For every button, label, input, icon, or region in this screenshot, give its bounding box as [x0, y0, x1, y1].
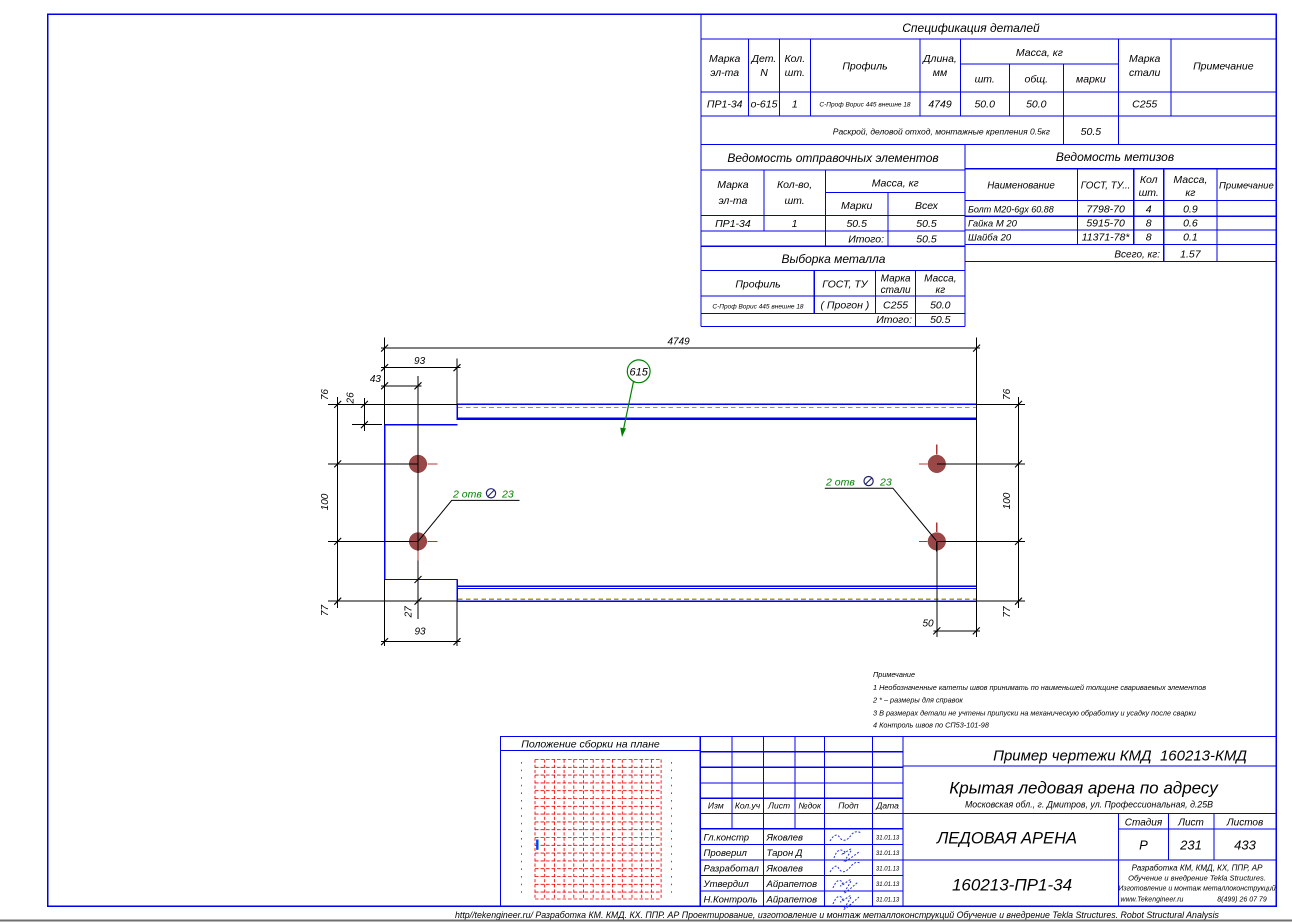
- svg-text:1 Необозначенные катеты швов: 1 Необозначенные катеты швов принимать п…: [873, 683, 1206, 692]
- dimension extension lines (black): [328, 338, 1025, 647]
- svg-text:Московская обл., г. Дмитров, у: Московская обл., г. Дмитров, ул. Професс…: [965, 800, 1213, 810]
- svg-text:ПР1-34: ПР1-34: [707, 99, 743, 111]
- leader label left "2 отв ⌀23": [418, 489, 520, 542]
- bottom grey separator line: [0, 920, 1292, 922]
- hole bottom-left: [409, 533, 427, 551]
- svg-text:эл-та: эл-та: [710, 67, 739, 79]
- svg-text:С255: С255: [883, 300, 908, 312]
- svg-text:ГОСТ, ТУ: ГОСТ, ТУ: [822, 279, 868, 291]
- svg-text:Шайба 20: Шайба 20: [968, 233, 1012, 244]
- svg-text:Листов: Листов: [1226, 818, 1263, 829]
- svg-text:Дет.: Дет.: [751, 53, 777, 65]
- stamp header texts: [708, 801, 899, 811]
- svg-text:8(499) 26 07 79: 8(499) 26 07 79: [1217, 897, 1267, 904]
- svg-text:4 Контроль швов по СП53-101-9: 4 Контроль швов по СП53-101-98: [873, 721, 990, 730]
- svg-text:Марка: Марка: [1129, 53, 1161, 65]
- svg-text:Примечание: Примечание: [873, 670, 915, 679]
- svg-text:Р: Р: [1139, 838, 1148, 853]
- svg-text:77: 77: [320, 605, 331, 617]
- hidden lip lines (olive dashed): [458, 408, 976, 600]
- svg-text:Проверил: Проверил: [704, 848, 748, 859]
- ved metizov table "Ведомость метизов" lines: [965, 145, 1276, 262]
- hole crosshair black overlays: [409, 454, 946, 552]
- detail balloon 615: [620, 360, 650, 437]
- svg-text:0.9: 0.9: [1183, 204, 1198, 216]
- svg-text:Обучение и внедрение Tekla St: Обучение и внедрение Tekla Structures.: [1128, 874, 1266, 883]
- svg-text:0.6: 0.6: [1183, 218, 1198, 230]
- svg-text:Раскрой, деловой отход, монтаж: Раскрой, деловой отход, монтажные крепле…: [833, 127, 1050, 137]
- svg-text:50.5: 50.5: [846, 218, 867, 230]
- svg-text:76: 76: [320, 389, 331, 401]
- svg-text:Изм: Изм: [708, 801, 724, 811]
- svg-text:Итого:: Итого:: [876, 314, 912, 326]
- stamp table lines: [500, 737, 1276, 906]
- svg-text:шт.: шт.: [784, 195, 804, 207]
- svg-text:( Прогон ): ( Прогон ): [821, 300, 870, 312]
- hole top-left: [409, 455, 427, 473]
- svg-text:мм: мм: [933, 67, 947, 79]
- svg-text:50: 50: [922, 619, 934, 630]
- svg-text:шт.: шт.: [1139, 187, 1159, 199]
- svg-text:1: 1: [792, 218, 798, 230]
- svg-text:Марки: Марки: [841, 200, 873, 212]
- notes "Примечание": [872, 670, 1206, 730]
- svg-text:Кол.уч: Кол.уч: [735, 801, 761, 811]
- svg-text:50.0: 50.0: [930, 300, 951, 312]
- svg-text:Яковлев: Яковлев: [766, 864, 804, 875]
- svg-text:8: 8: [1146, 232, 1152, 244]
- svg-text:50.0: 50.0: [1026, 99, 1047, 111]
- svg-text:Ведомость отправочных элементо: Ведомость отправочных элементов: [727, 151, 938, 165]
- svg-text:433: 433: [1234, 838, 1256, 853]
- svg-text:93: 93: [414, 626, 426, 637]
- svg-text:www.Tekengineer.ru: www.Tekengineer.ru: [1121, 897, 1184, 904]
- svg-text:стали: стали: [881, 285, 911, 296]
- svg-text:615: 615: [630, 367, 649, 379]
- svg-text:1.57: 1.57: [1180, 249, 1202, 261]
- svg-text:4749: 4749: [667, 337, 690, 348]
- svg-text:50.5: 50.5: [916, 234, 937, 246]
- svg-text:2 * – размеры для справок: 2 * – размеры для справок: [872, 696, 963, 705]
- svg-text:Длина,: Длина,: [922, 53, 957, 65]
- svg-text:Крытая ледовая арена по адресу: Крытая ледовая арена по адресу: [949, 779, 1219, 798]
- stamp dates: [876, 836, 900, 904]
- bottom flange inner double line: [457, 585, 976, 587]
- svg-text:93: 93: [414, 356, 426, 367]
- svg-text:0.1: 0.1: [1183, 232, 1198, 244]
- svg-text:Н.Контроль: Н.Контроль: [704, 894, 758, 905]
- svg-text:50.5: 50.5: [1081, 126, 1102, 138]
- left step bottom edge: [385, 579, 458, 581]
- svg-text:кг: кг: [935, 285, 945, 296]
- ved metizov texts: [968, 150, 1274, 261]
- assembly plan red grid: [522, 760, 672, 900]
- stamp name rows: [703, 833, 818, 906]
- svg-text:7798-70: 7798-70: [1086, 204, 1125, 216]
- svg-text:ПР1-34: ПР1-34: [715, 218, 751, 230]
- svg-text:Примечание: Примечание: [1219, 181, 1274, 192]
- svg-text:26: 26: [345, 392, 356, 405]
- svg-text:С-Проф Ворис 445 внешне 18: С-Проф Ворис 445 внешне 18: [712, 304, 804, 311]
- svg-text:100: 100: [1002, 492, 1013, 509]
- svg-text:76: 76: [1002, 388, 1013, 400]
- left notch vertical top: [456, 404, 458, 419]
- svg-text:2 отв: 2 отв: [825, 476, 855, 488]
- svg-text:Подп: Подп: [838, 801, 859, 811]
- svg-text:Дата: Дата: [875, 801, 899, 811]
- dimension lines (black): [338, 348, 1019, 641]
- svg-text:5915-70: 5915-70: [1086, 218, 1125, 230]
- spec table texts: [707, 21, 1254, 138]
- svg-text:Спецификация деталей: Спецификация деталей: [902, 21, 1040, 35]
- svg-text:31.01.13: 31.01.13: [876, 867, 900, 873]
- vyborka metalla table "Выборка металла" lines: [701, 271, 965, 327]
- svg-text:Профиль: Профиль: [842, 61, 887, 73]
- assembly plan blue position mark: [536, 840, 538, 850]
- svg-text:Итого:: Итого:: [848, 234, 884, 246]
- svg-text:Айрапетов: Айрапетов: [766, 894, 818, 905]
- bottom edge: [457, 600, 976, 602]
- svg-text:Болт М20-6gх 60.88: Болт М20-6gх 60.88: [968, 205, 1054, 215]
- svg-text:Всех: Всех: [915, 200, 939, 212]
- svg-text:Примечание: Примечание: [1193, 61, 1254, 73]
- svg-text:Выборка металла: Выборка металла: [782, 252, 886, 266]
- svg-text:Изготовление и монтаж металлок: Изготовление и монтаж металлоконструкций: [1118, 885, 1275, 893]
- svg-text:№док: №док: [798, 801, 822, 811]
- svg-text:Ведомость метизов: Ведомость метизов: [1056, 150, 1174, 164]
- left end edge: [384, 425, 386, 580]
- svg-text:Айрапетов: Айрапетов: [766, 879, 818, 890]
- svg-text:шт.: шт.: [785, 67, 805, 79]
- spec table "Спецификация деталей" lines: [701, 14, 1276, 326]
- svg-text:Гайка М 20: Гайка М 20: [968, 219, 1018, 230]
- svg-text:Всего, кг:: Всего, кг:: [1114, 250, 1160, 261]
- svg-text:ЛЕДОВАЯ АРЕНА: ЛЕДОВАЯ АРЕНА: [936, 830, 1077, 848]
- leader label right "2 отв ⌀23": [825, 476, 936, 540]
- svg-text:Кол.: Кол.: [784, 53, 805, 65]
- svg-text:Профиль: Профиль: [735, 279, 780, 291]
- svg-text:23: 23: [879, 476, 892, 488]
- svg-text:Масса, кг: Масса, кг: [872, 178, 919, 190]
- svg-text:Стадия: Стадия: [1125, 818, 1163, 829]
- hole top-right: [928, 455, 946, 473]
- svg-text:С-Проф Ворис 445 внешне 18: С-Проф Ворис 445 внешне 18: [819, 102, 911, 109]
- svg-text:Кол-во,: Кол-во,: [777, 179, 812, 191]
- svg-text:Масса, кг: Масса, кг: [1016, 47, 1063, 59]
- svg-text:160213-ПР1-34: 160213-ПР1-34: [952, 876, 1072, 895]
- svg-text:Разработка КМ, КМД, КХ, ППР, А: Разработка КМ, КМД, КХ, ППР, АР: [1132, 864, 1264, 873]
- svg-text:77: 77: [1002, 606, 1013, 618]
- svg-text:С255: С255: [1132, 99, 1157, 111]
- svg-text:50.5: 50.5: [930, 314, 951, 326]
- svg-text:стали: стали: [1129, 67, 1161, 79]
- svg-text:общ.: общ.: [1024, 74, 1048, 86]
- svg-text:31.01.13: 31.01.13: [876, 851, 900, 857]
- svg-text:Марка: Марка: [717, 179, 749, 191]
- svg-text:Яковлев: Яковлев: [766, 833, 804, 844]
- svg-text:Положение сборки на плане: Положение сборки на плане: [521, 739, 660, 751]
- svg-text:ГОСТ, ТУ...: ГОСТ, ТУ...: [1081, 181, 1131, 192]
- svg-text:эл-та: эл-та: [718, 195, 747, 207]
- svg-text:Гл.констр: Гл.констр: [704, 833, 750, 844]
- purlin profile outline (blue): [385, 404, 976, 601]
- svg-text:31.01.13: 31.01.13: [876, 836, 900, 842]
- svg-text:кг: кг: [1185, 187, 1195, 199]
- svg-text:Кол: Кол: [1140, 174, 1158, 186]
- svg-text:о-615: о-615: [751, 99, 778, 111]
- svg-text:8: 8: [1146, 218, 1152, 230]
- svg-text:23: 23: [501, 489, 514, 501]
- svg-text:2 отв: 2 отв: [452, 489, 482, 501]
- svg-text:4: 4: [1146, 204, 1152, 216]
- svg-text:1: 1: [792, 99, 798, 111]
- top edge: [457, 403, 976, 405]
- title block right section lines: [903, 766, 1276, 906]
- left step top edge: [385, 424, 458, 426]
- svg-text:марки: марки: [1076, 74, 1106, 86]
- svg-text:50.0: 50.0: [974, 99, 995, 111]
- svg-text:3 В размерах детали не учтены: 3 В размерах детали не учтены припуски н…: [873, 709, 1196, 718]
- top flange inner (thick): [457, 417, 976, 420]
- svg-text:100: 100: [320, 493, 331, 510]
- title block right section texts: [936, 748, 1276, 904]
- svg-text:Разработал: Разработал: [704, 864, 760, 875]
- svg-text:231: 231: [1179, 838, 1202, 853]
- svg-text:N: N: [760, 67, 768, 79]
- hole bottom-right: [928, 533, 946, 551]
- svg-text:Тарон Д: Тарон Д: [767, 848, 803, 859]
- svg-text:27: 27: [403, 606, 414, 619]
- svg-text:Масса,: Масса,: [924, 274, 956, 285]
- svg-text:Наименование: Наименование: [987, 181, 1055, 192]
- svg-text:50.5: 50.5: [916, 218, 937, 230]
- svg-text:11371-78*: 11371-78*: [1082, 232, 1131, 244]
- svg-text:Пример чертежи КМД 160213-КМД: Пример чертежи КМД 160213-КМД: [993, 748, 1247, 765]
- svg-text:31.01.13: 31.01.13: [876, 882, 900, 888]
- svg-text:4749: 4749: [928, 99, 952, 111]
- svg-text:Масса,: Масса,: [1173, 174, 1207, 186]
- svg-text:43: 43: [370, 374, 382, 385]
- svg-text:Лист: Лист: [1177, 818, 1204, 829]
- left notch vertical bottom: [456, 580, 458, 602]
- svg-text:http//tekengineer.ru/ Разрабо: http//tekengineer.ru/ Разработка КМ. КМД…: [455, 910, 1220, 920]
- dimension tick marks (45 deg slashes): [334, 345, 1022, 645]
- ved otpr texts: [715, 151, 939, 246]
- ved otpr table "Ведомость отправочных элементов" lines: [701, 145, 965, 327]
- svg-text:Марка: Марка: [881, 274, 911, 285]
- hole center red ticks: [418, 445, 937, 561]
- svg-text:Лист: Лист: [767, 801, 790, 811]
- bolt holes (dark red hatched circles with red tick marks): [409, 455, 945, 550]
- vyborka metalla texts: [712, 252, 956, 326]
- svg-text:31.01.13: 31.01.13: [876, 897, 900, 903]
- title block: assembly position box: [500, 737, 700, 906]
- svg-text:шт.: шт.: [975, 74, 995, 86]
- signatures (blue scribbles): [830, 832, 861, 910]
- dimension labels: [320, 337, 1013, 638]
- svg-text:Утвердил: Утвердил: [703, 879, 750, 890]
- svg-text:Марка: Марка: [709, 53, 741, 65]
